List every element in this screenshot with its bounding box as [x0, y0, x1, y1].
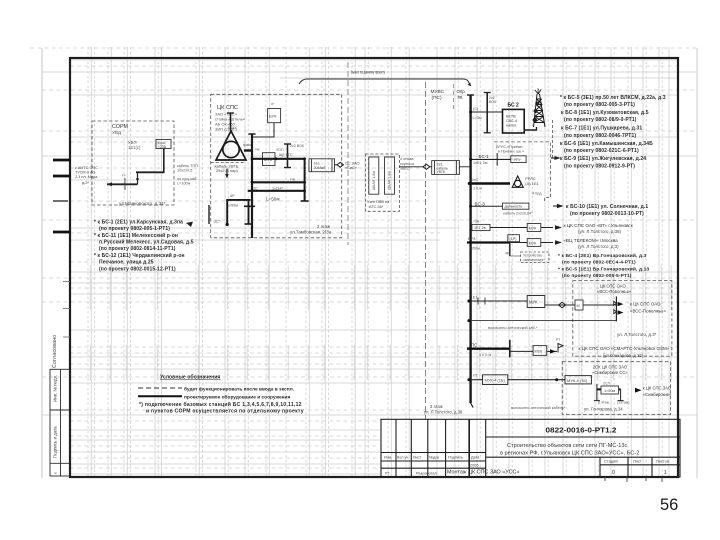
svg-text:* к БС-5 (3Е1) пр.50 лет ВЛКСМ: * к БС-5 (3Е1) пр.50 лет ВЛКСМ, д.22а, д…: [560, 95, 666, 101]
tick marks cable: [287, 144, 289, 168]
svg-text:в регионах РФ, г.Ульяновск ЦК: в регионах РФ, г.Ульяновск ЦК СПС ЗАО«УС…: [500, 451, 639, 457]
svg-text:БС-1: БС-1: [479, 154, 490, 159]
enclosure VSS-Povolzhye: [573, 281, 672, 357]
box 1R: [508, 235, 520, 242]
svg-text:Лист: Лист: [413, 456, 422, 460]
wire trunk line 1: [53, 159, 70, 162]
svg-text:(по проекту 0802-021С-6-РТ1): (по проекту 0802-021С-6-РТ1): [564, 148, 639, 154]
svg-text:(по проекту 0802-005-3-РТ1): (по проекту 0802-005-3-РТ1): [564, 102, 635, 108]
svg-text:№док: №док: [429, 456, 439, 460]
svg-text:АТС-36*: АТС-36*: [369, 205, 384, 209]
wire SORM horizontal: [136, 171, 165, 173]
partition kabel UVTB: [211, 162, 244, 164]
svg-text:(по проекту 0802-0046-7РТ1): (по проекту 0802-0046-7РТ1): [564, 133, 636, 139]
box MB: [575, 300, 583, 310]
svg-text:* к БС-1 (2Е1) ул.Карсунская,: * к БС-1 (2Е1) ул.Карсунская, д.3па: [94, 220, 183, 226]
svg-text:0822-0016-0-РТ1.2: 0822-0016-0-РТ1.2: [546, 426, 617, 435]
svg-text:БРЗ: БРЗ: [468, 236, 476, 241]
wire long to VSS bottom: [469, 320, 617, 322]
drop right T cap: [304, 159, 306, 201]
svg-text:+23В: +23В: [158, 145, 167, 149]
wire row2: [252, 181, 305, 183]
svg-text:(по проекту 0802-08/9-0-РТ1): (по проекту 0802-08/9-0-РТ1): [564, 117, 637, 123]
svg-text:1хЕ1 2м: 1хЕ1 2м: [473, 161, 488, 165]
svg-text:к БС-6 (1Е1) ул.Камышинская, д: к БС-6 (1Е1) ул.Камышинская, д.34Б: [560, 141, 653, 147]
svg-text:* к БС-5 (1Е1) Вр.Гончаровский: * к БС-5 (1Е1) Вр.Гончаровский, д.13: [558, 266, 649, 273]
antenna tower BS-2: [534, 94, 546, 127]
arrowhead to BS list: [186, 222, 193, 228]
wire SORM vertical: [163, 149, 165, 173]
svg-text:МШУ: МШУ: [228, 126, 237, 130]
junction dots row1: [251, 157, 254, 160]
wire PVV link: [399, 166, 423, 168]
frame tick stubs: [63, 282, 70, 338]
text list right BS-5..BS-9: [560, 95, 666, 170]
rack 1: [369, 157, 379, 194]
wire to MUK d: [510, 350, 533, 352]
svg-text:ул. Гончарова, д.34: ул. Гончарова, д.34: [584, 407, 623, 412]
enclosure step corner: [545, 194, 551, 202]
svg-text:4Р: 4Р: [505, 252, 510, 256]
svg-text:2СК ЦК СПС ЗАО: 2СК ЦК СПС ЗАО: [593, 365, 628, 370]
svg-text:«ВЦ ТЕЛЕКОМ» г.Москва: «ВЦ ТЕЛЕКОМ» г.Москва: [564, 238, 619, 243]
svg-text:Согласовано: Согласовано: [52, 335, 58, 368]
svg-text:Дата: Дата: [471, 456, 480, 460]
box MUK b: [527, 239, 541, 247]
svg-text:корпоса: корпоса: [400, 162, 415, 166]
svg-text:(С): (С): [473, 107, 479, 111]
svg-text:ЦК СПС: ЦК СПС: [217, 105, 238, 111]
svg-text:(ул. Л.Толстого, д.38): (ул. Л.Толстого, д.38): [578, 229, 622, 234]
svg-text:БУК: БУК: [269, 114, 277, 119]
wire BUK drop: [252, 123, 274, 137]
wire BS-3 row: [471, 205, 503, 207]
drop x209: [208, 205, 210, 224]
svg-text:к ЦК СПС ОАО «СМАРТС-Ульяновск: к ЦК СПС ОАО «СМАРТС-Ульяновск GSM»: [579, 346, 670, 351]
svg-text:Строительство объектов сети се: Строительство объектов сети сети ПГ-МС-1…: [507, 443, 627, 449]
text list BS-1/11/12: [94, 220, 194, 273]
wire SORM lower with arrow: [107, 183, 138, 185]
box 1E1 2048: [309, 159, 335, 172]
svg-text:1х50м: 1х50м: [227, 204, 238, 208]
svg-text:будет функционировать после вв: будет функционировать после ввода в эксп…: [184, 385, 294, 392]
column line MUVS: [425, 82, 427, 419]
svg-text:* к БС-11 (1Е1) Мелекесский р-: * к БС-11 (1Е1) Мелекесский р-он: [94, 232, 178, 239]
svg-text:(ул. Л.Толстого, д.3): (ул. Л.Толстого, д.3): [578, 244, 619, 249]
svg-text:(по проекту 0802-005-5-РТ1): (по проекту 0802-005-5-РТ1): [562, 273, 632, 279]
svg-text:п.Русский Мелекесс, ул.Садовая: п.Русский Мелекесс, ул.Садовая, д.5: [99, 239, 194, 246]
RRL triangle symbol: [512, 176, 523, 187]
box BS-2: [503, 109, 525, 133]
wire MUK row: [469, 300, 527, 302]
svg-text:к АМТС ОПС: к АМТС ОПС: [75, 166, 98, 170]
drop CS: [226, 200, 228, 225]
svg-text:УОП: УОП: [276, 148, 284, 152]
svg-text:УВТС: УВТС: [400, 167, 410, 171]
svg-text:1 п.м: 1 п.м: [473, 187, 482, 191]
box MUK d: [533, 346, 547, 356]
wire bus to MUK-4: [469, 379, 483, 381]
title stage cells: [604, 459, 669, 464]
svg-text:ТУСМ-9 АО: ТУСМ-9 АО: [75, 171, 95, 175]
box MUK: [263, 153, 276, 166]
svg-text:дальность: дальность: [505, 205, 523, 209]
enclosure BS-1 RRL: [494, 142, 550, 197]
svg-text:РРУ: РРУ: [514, 158, 522, 162]
svg-text:Стадия: Стадия: [604, 459, 618, 464]
svg-text:тчк: тчк: [255, 148, 261, 152]
arrow smarts: [550, 349, 556, 353]
svg-text:вв.: вв.: [458, 95, 464, 100]
box BS-3 dalnost: [503, 203, 529, 209]
text list BS-4 BS-5: [558, 252, 649, 279]
svg-text:* к БС-12 (1Е1) Чердаклинский: * к БС-12 (1Е1) Чердаклинский р-он: [94, 252, 185, 259]
svg-text:10х2х0,5: 10х2х0,5: [177, 169, 192, 173]
box MUK c: [527, 296, 545, 308]
svg-text:Подпись и дата: Подпись и дата: [53, 426, 58, 458]
svg-text:2048кб: 2048кб: [314, 166, 326, 170]
svg-text:L=50м: L=50м: [266, 197, 280, 202]
svg-text:2х2 ВОК: 2х2 ВОК: [290, 144, 305, 148]
svg-text:«ВСС-Поволжье»: «ВСС-Поволжье»: [630, 309, 666, 314]
wire MUK-4 link: [508, 379, 565, 381]
box Kross +23V: [156, 140, 171, 149]
svg-text:напол.: напол.: [506, 124, 517, 128]
svg-text:Песчаное, улица д.25: Песчаное, улица д.25: [99, 260, 154, 266]
arrow a: [541, 227, 553, 229]
arrow b: [541, 242, 553, 244]
connector diamond PVV: [423, 164, 430, 169]
svg-text:(по проекту 0802-0013-10-РТ): (по проекту 0802-0013-10-РТ): [570, 211, 644, 217]
svg-text:к ЦК СПС ОАО «ВТ» г.Ульяновск: к ЦК СПС ОАО «ВТ» г.Ульяновск: [564, 223, 634, 228]
box ustroystvo zazemleniya: [521, 252, 550, 263]
svg-text:(ул.Гончарова, д.32): (ул.Гончарова, д.32): [603, 353, 644, 358]
wire PS thick: [467, 348, 510, 350]
stamp column box: [50, 369, 70, 476]
wire MUK to VSS: [545, 304, 617, 306]
svg-text:1х2х4*: 1х2х4*: [272, 186, 284, 190]
bus end tick: [471, 403, 474, 408]
svg-text:1Е1: 1Е1: [471, 295, 479, 300]
svg-text:тчк: тчк: [290, 178, 296, 182]
wire VSS vertical: [615, 296, 617, 321]
svg-text:МУК: МУК: [529, 227, 538, 231]
svg-text:МУК-4 (1Б): МУК-4 (1Б): [485, 378, 506, 383]
svg-text:ЩЕ 2ТС: ЩЕ 2ТС: [279, 153, 293, 157]
box RRU: [511, 156, 526, 163]
svg-text:РТ: РТ: [385, 472, 390, 476]
svg-text:волоконно-оптический кабель*: волоконно-оптический кабель*: [511, 406, 566, 410]
column line left: [347, 62, 349, 245]
legend dashed sample: [138, 387, 182, 389]
box 1E1 2v: [472, 224, 490, 230]
svg-text:L=3м: L=3м: [473, 116, 482, 120]
svg-text:2С: 2С: [253, 186, 258, 190]
wire trunk line 2: [53, 175, 70, 178]
wire row3: [248, 190, 305, 192]
svg-text:1Е1(с): 1Е1(с): [128, 145, 141, 150]
svg-text:МУК: МУК: [535, 350, 544, 354]
svg-text:к БС-7 (1Е1) ул.Пушкарева, д.3: к БС-7 (1Е1) ул.Пушкарева, д.31: [561, 126, 642, 132]
column line opr: [453, 84, 455, 112]
arrow down from partition: [226, 169, 228, 177]
svg-text:(ПС): (ПС): [432, 95, 443, 101]
title block headers: [384, 456, 480, 476]
bus CK SPS vertical: [251, 134, 253, 238]
dashed link vertical right: [552, 120, 554, 158]
svg-text:Разработал: Разработал: [416, 472, 437, 476]
flag T: [547, 350, 557, 352]
wire to MUK a: [490, 227, 527, 229]
svg-text:2,3 пл. Мира,: 2,3 пл. Мира,: [75, 175, 98, 179]
svg-text:БРУС-«Приёмн.: БРУС-«Приёмн.: [496, 145, 524, 149]
svg-text:ЦС*: ЦС*: [214, 220, 222, 224]
svg-text:3 этаж: 3 этаж: [430, 404, 443, 409]
box AV: [601, 386, 619, 394]
svg-text:тч: тч: [122, 174, 126, 178]
svg-text:4Р: 4Р: [230, 194, 235, 198]
svg-text:*) подключение базовых станций: *) подключение базовых станций БС 1,3,4,…: [139, 401, 302, 408]
svg-text:факс: факс: [243, 143, 252, 147]
svg-text:и пунктов СОРМ осуществляется: и пунктов СОРМ осуществляется по отдельн…: [146, 408, 304, 414]
connector VSS 2: [614, 310, 617, 314]
svg-text:(А)-1Е1: (А)-1Е1: [525, 181, 538, 186]
title block: [381, 419, 680, 477]
svg-text:Подпись: Подпись: [448, 456, 463, 460]
svg-text:L=2м: L=2м: [471, 220, 480, 224]
bracket wire: [299, 79, 471, 86]
wire row4 short: [226, 199, 250, 201]
enclosure Uzel PVV: [365, 154, 399, 211]
svg-text:«Симбирские СС»: «Симбирские СС»: [592, 370, 628, 375]
svg-text:(1Р): (1Р): [510, 237, 517, 241]
svg-text:2 этаж: 2 этаж: [317, 224, 330, 229]
arrow to right list: [551, 157, 559, 159]
svg-text:(по проекту 0802-0015-12-РТ1): (по проекту 0802-0015-12-РТ1): [99, 267, 176, 273]
drop with T cap: [248, 200, 250, 224]
svg-text:МУК: МУК: [529, 300, 538, 305]
svg-text:к БС-9 (1Е1) ул.Жигулевская, д: к БС-9 (1Е1) ул.Жигулевская, д.24: [560, 156, 646, 162]
svg-text:ЦК СПС ОАО: ЦК СПС ОАО: [600, 284, 627, 289]
antenna symbol CK SPS: [216, 131, 246, 160]
svg-text:Монтаж ЦК СПС ЗАО «УСС»: Монтаж ЦК СПС ЗАО «УСС»: [447, 470, 519, 476]
svg-text:«БиС»: «БиС»: [345, 165, 357, 170]
svg-text:Кол.уч: Кол.уч: [397, 456, 408, 460]
svg-text:к: к: [54, 472, 58, 474]
legend solid sample: [138, 395, 182, 397]
svg-text:заземления*: заземления*: [523, 258, 545, 262]
svg-text:к ЦК СПС ЗАО: к ЦК СПС ЗАО: [643, 386, 672, 391]
title block bottom tick stubs: [605, 477, 662, 482]
svg-text:ВЕТВ: ВЕТВ: [506, 115, 516, 119]
arrow simbirskie: [635, 388, 642, 393]
svg-text:д.2*: д.2*: [82, 181, 89, 185]
wire BRZ row: [467, 241, 510, 243]
svg-text:к БС-8 (1Е1) ул.Кузоватовская,: к БС-8 (1Е1) ул.Кузоватовская, д.5: [561, 110, 649, 116]
drop 4R: [509, 242, 511, 256]
rack 2: [385, 157, 395, 194]
svg-text:0: 0: [612, 470, 615, 476]
svg-text:«ВСС-Поволжье»: «ВСС-Поволжье»: [597, 289, 632, 294]
svg-text:по сущ.каб.: по сущ.каб.: [177, 177, 197, 181]
enclosure SORM: [92, 121, 174, 205]
svg-text:БС 2: БС 2: [508, 103, 520, 109]
box MUK a: [527, 224, 541, 232]
svg-text:1 п 5 м: 1 п 5 м: [479, 353, 491, 357]
svg-text:6 этаж.: 6 этаж.: [598, 401, 610, 405]
svg-text:в Приёмн. шк.»: в Приёмн. шк.»: [498, 150, 524, 154]
box MUK-4 right: [565, 376, 591, 384]
svg-text:волоконно-оптический каб.*: волоконно-оптический каб.*: [488, 326, 538, 330]
arrow BS-10: [553, 205, 561, 207]
cable mark BS-2: [486, 93, 488, 133]
svg-text:L=100м: L=100м: [177, 182, 191, 186]
svg-text:(по проекту 0802-0912-9-РТ): (по проекту 0802-0912-9-РТ): [564, 164, 635, 170]
svg-text:1: 1: [664, 470, 667, 476]
svg-text:2хС: 2хС: [472, 178, 479, 182]
svg-text:4 этажа: 4 этажа: [400, 157, 414, 161]
svg-text:МУВС: МУВС: [431, 89, 445, 95]
bus main vertical: [469, 95, 471, 403]
wire MUK b: [510, 242, 527, 244]
wire Simbirskie inner: [596, 384, 598, 401]
svg-text:ул.Маяковского, д.34*: ул.Маяковского, д.34*: [119, 201, 166, 206]
svg-text:* к БС-4 (2Е1) Вр.Гончаровский: * к БС-4 (2Е1) Вр.Гончаровский, д.3: [558, 252, 647, 259]
svg-text:1х50м: 1х50м: [469, 247, 480, 251]
svg-text:2006: 2006: [470, 464, 478, 468]
box 1E1 kabel: [432, 161, 460, 175]
svg-text:к ЦК СПС ОАО: к ЦК СПС ОАО: [630, 302, 661, 307]
svg-text:УВТБ: УВТБ: [437, 170, 446, 174]
svg-text:кабель ТПП: кабель ТПП: [177, 164, 198, 168]
wire BS-1 row: [471, 158, 511, 160]
svg-text:4 прд: 4 прд: [532, 192, 542, 196]
svg-text:(по проекту 0802-0ЕС4-4-РТ1): (по проекту 0802-0ЕС4-4-РТ1): [562, 260, 636, 266]
wire to BS-2: [471, 111, 503, 113]
svg-text:1Е1: 1Е1: [314, 161, 320, 165]
svg-text:1=50м: 1=50м: [604, 389, 616, 393]
antenna stem: [230, 113, 232, 131]
wire BS2 to tower: [524, 127, 536, 130]
svg-text:РТ: РТ: [556, 338, 561, 342]
drop PS: [509, 340, 511, 358]
svg-text:(1этаж): (1этаж): [617, 401, 629, 405]
svg-text:ул. Л.Толстого, д.38: ул. Л.Толстого, д.38: [424, 410, 463, 415]
svg-text:ШКАФ 1,8м: ШКАФ 1,8м: [372, 171, 376, 190]
svg-text:1Е1 2в: 1Е1 2в: [474, 226, 486, 230]
wire row1: [252, 158, 305, 160]
svg-text:ул.Тамбовская, 2/3а: ул.Тамбовская, 2/3а: [290, 230, 332, 235]
svg-text:(по проекту 0802-005-1-РТ1): (по проекту 0802-005-1-РТ1): [99, 226, 170, 232]
connector VSS 1: [614, 301, 617, 305]
svg-text:Изм.: Изм.: [384, 456, 392, 460]
svg-text:СВС-4: СВС-4: [506, 119, 517, 123]
svg-text:к БС-10 (1Е1) ул. Солнечная, д: к БС-10 (1Е1) ул. Солнечная, д.1: [566, 204, 648, 210]
svg-text:Вынос по данному проекту: Вынос по данному проекту: [351, 70, 386, 75]
svg-text:Узел ПВВ на: Узел ПВВ на: [367, 200, 390, 204]
wire trunk line 4: [53, 231, 70, 234]
svg-text:(по проекту 0802-0814-11-РТ1): (по проекту 0802-0814-11-РТ1): [99, 246, 176, 252]
svg-text:МУК-4 (1Б): МУК-4 (1Б): [567, 378, 588, 383]
box MUK-4 left: [483, 375, 508, 385]
svg-text:2СЛ: 2СЛ: [603, 382, 610, 386]
svg-text:56: 56: [660, 496, 678, 514]
svg-text:ШКАФ 1,8м: ШКАФ 1,8м: [388, 171, 392, 190]
svg-text:«Симбирские»: «Симбирские»: [643, 392, 672, 397]
svg-text:кабель 2х2х0,64*: кабель 2х2х0,64*: [503, 212, 533, 216]
wire antenna to bus: [244, 149, 253, 151]
label MTT: [0, 0, 1, 1]
enclosure CK SPS: [211, 94, 342, 238]
connector diamond d: [559, 302, 566, 308]
svg-text:ПС: ПС: [471, 343, 477, 348]
svg-text:МУК: МУК: [529, 242, 538, 246]
svg-text:Опр.: Опр.: [457, 89, 466, 94]
wire RRL thick row: [469, 182, 510, 185]
svg-text:М: М: [577, 304, 580, 308]
svg-text:ВОК: ВОК: [489, 100, 497, 104]
wire trunk line 3: [53, 200, 68, 202]
svg-text:Лист: Лист: [633, 459, 642, 464]
svg-text:Листов: Листов: [656, 459, 669, 464]
svg-text:УВД: УВД: [112, 130, 122, 135]
svg-text:Условные обозначения: Условные обозначения: [160, 374, 220, 381]
label BS-10: [566, 204, 648, 217]
enclosure Simbirskie: [562, 362, 670, 415]
svg-text:проектируемое оборудование и с: проектируемое оборудование и сооружения: [184, 394, 290, 401]
svg-text:ул. Л.Толстого, д.3*: ул. Л.Толстого, д.3*: [617, 332, 657, 337]
box BUK: [268, 109, 281, 123]
svg-text:Инв. № подл.: Инв. № подл.: [53, 375, 58, 402]
svg-text:а*: а*: [271, 102, 275, 106]
connector diamond CK: [337, 162, 343, 167]
